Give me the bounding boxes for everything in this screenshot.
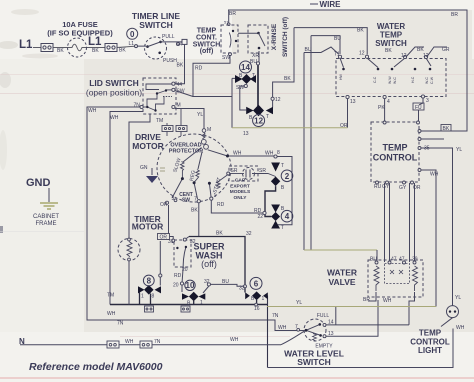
svg-text:H-C: H-C (411, 76, 415, 83)
svg-text:BK: BK (385, 48, 392, 54)
svg-text:T1: T1 (334, 52, 340, 58)
svg-text:(IF SO EQUIPPED): (IF SO EQUIPPED) (47, 29, 113, 38)
svg-text:PULL: PULL (162, 34, 175, 40)
svg-text:32: 32 (190, 239, 196, 245)
svg-text:SW: SW (177, 89, 185, 95)
svg-text:BR: BR (229, 11, 236, 17)
svg-text:EMPTY: EMPTY (315, 344, 333, 350)
svg-text:FU: FU (415, 105, 422, 111)
svg-text:2: 2 (285, 172, 290, 181)
svg-text:WIRE: WIRE (320, 0, 342, 9)
svg-text:MODELS: MODELS (230, 189, 251, 195)
svg-text:CONT.: CONT. (196, 35, 217, 42)
svg-text:32: 32 (239, 286, 245, 292)
svg-text:39: 39 (412, 257, 418, 263)
svg-text:RD: RD (217, 202, 225, 208)
svg-text:SWITCH: SWITCH (139, 20, 173, 30)
svg-text:WATER: WATER (327, 268, 357, 278)
svg-text:10: 10 (186, 281, 195, 290)
svg-text:L1: L1 (19, 39, 33, 51)
svg-text:13: 13 (350, 99, 356, 105)
svg-text:WH: WH (456, 325, 465, 331)
svg-text:C-W: C-W (430, 76, 434, 84)
svg-text:PUSH: PUSH (163, 58, 177, 64)
svg-text:TM: TM (107, 293, 114, 299)
svg-text:(off): (off) (200, 48, 214, 55)
svg-text:GY: GY (382, 184, 390, 190)
svg-text:XR: XR (252, 53, 259, 59)
svg-text:BK: BK (92, 48, 99, 54)
svg-text:BK: BK (216, 231, 223, 237)
svg-text:WH: WH (125, 339, 134, 345)
svg-text:OR: OR (413, 185, 421, 191)
svg-text:T: T (252, 73, 255, 79)
svg-text:MOTOR: MOTOR (132, 222, 163, 232)
svg-text:BR: BR (451, 12, 458, 18)
svg-text:OR: OR (340, 123, 348, 129)
svg-text:WH: WH (233, 151, 242, 157)
svg-text:W-W: W-W (388, 76, 392, 84)
svg-text:47: 47 (399, 257, 405, 263)
svg-text:13: 13 (243, 131, 249, 137)
svg-text:12: 12 (359, 51, 365, 57)
svg-text:SW: SW (182, 198, 190, 204)
svg-text:YL: YL (456, 147, 462, 153)
svg-text:SWITCH: SWITCH (375, 39, 407, 48)
svg-text:BK: BK (357, 28, 364, 34)
svg-text:Reference model MAV6000: Reference model MAV6000 (29, 361, 163, 373)
svg-text:CONTROL: CONTROL (373, 153, 418, 163)
svg-text:BK: BK (119, 48, 126, 54)
svg-text:1: 1 (262, 296, 265, 302)
svg-text:SWITCH: SWITCH (297, 357, 331, 367)
svg-text:BK: BK (417, 47, 424, 53)
svg-text:C-C: C-C (373, 76, 377, 83)
svg-text:7N: 7N (154, 339, 161, 345)
svg-text:WH: WH (88, 108, 97, 114)
svg-text:YL: YL (197, 112, 203, 118)
svg-text:L1: L1 (129, 41, 135, 47)
svg-text:32: 32 (204, 279, 210, 285)
svg-text:12: 12 (275, 97, 281, 103)
svg-text:7: 7 (295, 324, 298, 330)
svg-text:BK: BK (177, 63, 184, 69)
svg-text:TM: TM (156, 118, 163, 124)
svg-text:WH: WH (230, 337, 239, 343)
svg-text:WH: WH (265, 151, 274, 157)
svg-text:ONLY: ONLY (234, 195, 248, 201)
svg-text:7: 7 (194, 197, 197, 203)
svg-text:HW: HW (339, 73, 343, 80)
svg-text:X-RINSE: X-RINSE (271, 23, 278, 50)
svg-text:16: 16 (254, 306, 260, 312)
svg-text:31: 31 (168, 239, 174, 245)
svg-text:T: T (281, 163, 284, 169)
svg-text:BK: BK (284, 76, 291, 82)
svg-text:12: 12 (254, 117, 263, 126)
svg-text:LIGHT: LIGHT (418, 346, 442, 355)
svg-text:BR: BR (363, 297, 370, 303)
svg-text:RU: RU (374, 184, 382, 190)
svg-text:TEMP: TEMP (419, 329, 442, 338)
svg-text:6: 6 (254, 279, 259, 288)
svg-text:M: M (177, 103, 181, 109)
svg-text:WH: WH (107, 311, 116, 317)
svg-text:WH: WH (278, 325, 287, 331)
svg-text:35: 35 (424, 146, 430, 152)
svg-text:44: 44 (177, 82, 183, 88)
svg-text:RD: RD (195, 66, 203, 72)
svg-text:BU: BU (305, 47, 312, 53)
svg-text:0: 0 (130, 30, 135, 39)
svg-text:SWITCH (off): SWITCH (off) (282, 17, 289, 57)
svg-text:BK: BK (191, 208, 198, 214)
svg-text:OR: OR (160, 235, 168, 241)
svg-text:PROTECTOR: PROTECTOR (169, 149, 203, 155)
svg-text:N: N (19, 337, 25, 346)
svg-text:51: 51 (224, 20, 229, 25)
svg-text:47: 47 (391, 257, 397, 263)
svg-text:BK: BK (443, 126, 450, 132)
svg-text:CABINET: CABINET (33, 214, 59, 220)
svg-text:7N: 7N (272, 313, 279, 319)
svg-text:W-C: W-C (425, 77, 429, 84)
svg-text:20: 20 (182, 267, 188, 273)
svg-text:22: 22 (258, 214, 264, 220)
svg-text:8: 8 (152, 294, 155, 300)
svg-text:BK: BK (57, 48, 64, 54)
svg-text:1: 1 (141, 294, 144, 300)
svg-text:EXPORT: EXPORT (230, 183, 250, 189)
svg-text:44: 44 (177, 41, 183, 47)
svg-text:VALVE: VALVE (328, 277, 355, 287)
svg-text:FRAME: FRAME (36, 221, 57, 227)
svg-text:14: 14 (328, 320, 334, 326)
svg-text:(off): (off) (201, 259, 217, 269)
svg-text:GY: GY (399, 185, 407, 191)
svg-text:12: 12 (423, 53, 429, 59)
svg-text:RD: RD (174, 273, 182, 279)
svg-text:BU: BU (222, 279, 229, 285)
svg-text:(open position): (open position) (86, 88, 142, 98)
svg-text:SW: SW (222, 55, 230, 61)
svg-text:LID SWITCH: LID SWITCH (89, 78, 139, 88)
svg-text:TEMP: TEMP (197, 28, 217, 35)
svg-text:WH: WH (430, 172, 439, 178)
svg-text:SR: SR (231, 168, 238, 174)
svg-text:GN: GN (140, 165, 148, 171)
svg-text:3: 3 (426, 98, 429, 104)
svg-text:1: 1 (200, 300, 203, 306)
svg-text:3: 3 (172, 196, 175, 202)
svg-text:8: 8 (277, 150, 280, 156)
svg-text:PK: PK (378, 105, 385, 111)
svg-text:T: T (281, 225, 284, 231)
svg-text:13: 13 (328, 331, 334, 337)
svg-text:W-C: W-C (393, 77, 397, 84)
svg-text:4: 4 (285, 212, 290, 221)
svg-text:SW: SW (236, 85, 244, 91)
svg-text:BU: BU (250, 59, 257, 65)
svg-text:7N: 7N (134, 103, 141, 109)
svg-text:32: 32 (246, 231, 252, 237)
svg-text:BU: BU (334, 36, 341, 42)
svg-text:L1: L1 (88, 36, 102, 48)
svg-text:GR: GR (442, 47, 450, 53)
svg-text:MOTOR: MOTOR (132, 141, 163, 151)
svg-text:YL: YL (455, 295, 461, 301)
svg-text:7N: 7N (117, 321, 124, 327)
svg-text:YL: YL (296, 300, 302, 306)
svg-text:T: T (266, 114, 269, 120)
svg-text:BU: BU (370, 257, 377, 263)
svg-text:20: 20 (173, 283, 179, 289)
svg-text:1: 1 (214, 193, 217, 199)
svg-text:GND: GND (26, 177, 51, 189)
svg-text:8: 8 (147, 277, 152, 286)
svg-text:TEMP: TEMP (382, 143, 407, 153)
svg-text:4: 4 (387, 99, 390, 105)
svg-text:12: 12 (401, 53, 407, 59)
svg-text:WH: WH (110, 115, 119, 121)
svg-text:WH: WH (383, 298, 392, 304)
svg-text:OR: OR (160, 202, 168, 208)
svg-text:CAP: CAP (235, 178, 246, 184)
svg-text:FULL: FULL (317, 313, 329, 319)
svg-text:SR: SR (259, 168, 266, 174)
svg-text:M: M (207, 127, 211, 133)
